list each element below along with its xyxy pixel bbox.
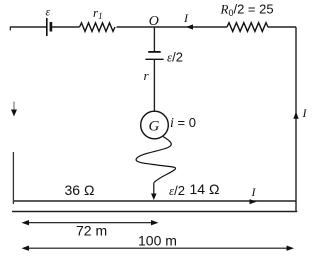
battery E (cell) bbox=[47, 18, 51, 36]
svg-text:ε/2: ε/2 bbox=[167, 50, 183, 65]
svg-text:I: I bbox=[302, 106, 308, 120]
wire top horizontal left segment bbox=[10, 26, 46, 28]
potentiometer wire bar top line bbox=[13, 200, 296, 202]
current arrow left wire (down) bbox=[13, 102, 15, 113]
svg-text:I: I bbox=[183, 11, 189, 25]
svg-text:R0/2 = 25: R0/2 = 25 bbox=[220, 2, 274, 19]
jockey flexible wire (squiggle) bbox=[136, 137, 175, 183]
dimension arrow 100 m bbox=[24, 247, 292, 249]
wire right vertical bbox=[295, 27, 297, 212]
galvanometer G bbox=[141, 111, 169, 139]
svg-text:G: G bbox=[149, 119, 160, 135]
current I arrow on bar bbox=[250, 199, 257, 204]
resistor r1 bbox=[80, 23, 116, 32]
svg-text:r: r bbox=[144, 68, 150, 83]
svg-text:ε/2: ε/2 bbox=[169, 183, 185, 198]
wire cell to galvanometer bbox=[153, 59, 155, 111]
current I arrow right wire (up) bbox=[293, 112, 298, 119]
svg-text:I: I bbox=[251, 185, 257, 199]
potentiometer wire bar bottom line bbox=[12, 211, 297, 213]
svg-text:14 Ω: 14 Ω bbox=[190, 181, 220, 197]
resistor R0/2 bbox=[227, 23, 268, 32]
wire left vertical lower bbox=[12, 152, 14, 201]
svg-text:100 m: 100 m bbox=[138, 233, 177, 249]
svg-text:36 Ω: 36 Ω bbox=[65, 182, 95, 198]
svg-text:O: O bbox=[149, 14, 159, 29]
wire battery to r1 bbox=[52, 26, 80, 28]
svg-text:ε: ε bbox=[46, 5, 51, 19]
svg-text:= 0: = 0 bbox=[178, 115, 196, 130]
svg-text:r1: r1 bbox=[93, 5, 103, 21]
left wire tick below corner bbox=[12, 201, 14, 204]
wire node O vertical to cell bbox=[153, 27, 155, 51]
current I arrow on top wire bbox=[186, 24, 193, 29]
wire top left end tick bbox=[9, 27, 11, 31]
svg-text:i: i bbox=[170, 116, 174, 131]
dimension arrow 72 m bbox=[24, 222, 156, 224]
wire R0/2 to top right corner bbox=[268, 26, 296, 28]
wire r1 to node O bbox=[117, 26, 228, 28]
svg-text:72 m: 72 m bbox=[76, 223, 107, 239]
jockey arrow bbox=[153, 183, 155, 196]
battery E/2 (cell) bbox=[145, 52, 163, 59]
